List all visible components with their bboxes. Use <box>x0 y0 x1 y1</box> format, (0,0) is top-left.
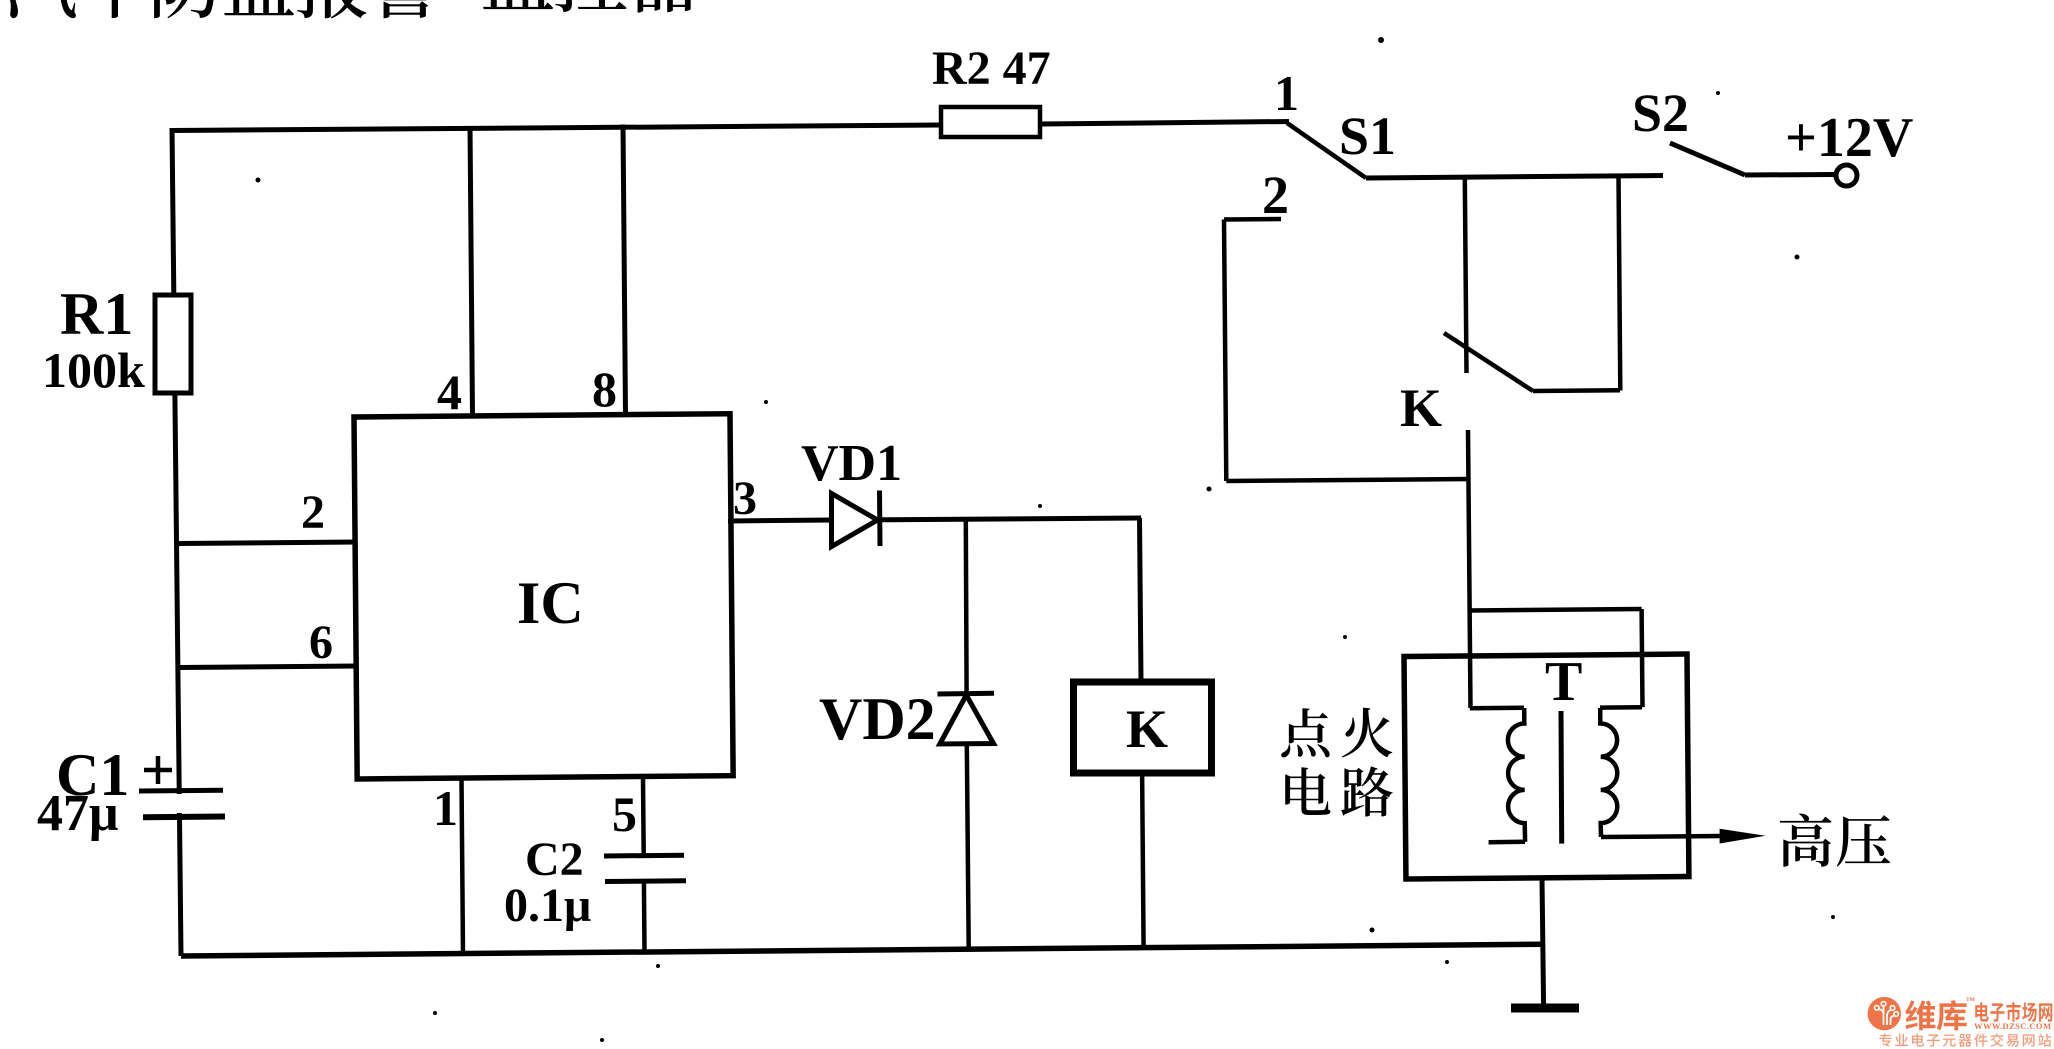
svg-text:2: 2 <box>1262 165 1289 225</box>
capacitor C2 top plate <box>604 853 684 859</box>
transformer secondary winding <box>1600 708 1617 837</box>
scan noise specks <box>256 37 1836 1042</box>
label 高压 <box>1780 814 1890 867</box>
relay coil K box <box>1074 682 1212 773</box>
svg-text:5: 5 <box>612 786 637 842</box>
svg-text:T: T <box>1545 651 1582 713</box>
capacitor C2 bottom plate <box>605 878 686 884</box>
wire IC pin5 lower <box>642 881 647 952</box>
label 点火电路 <box>1281 708 1393 817</box>
switch S1 blade <box>1287 123 1366 178</box>
arrow head 高压 output <box>1720 829 1766 844</box>
svg-text:VD2: VD2 <box>819 686 936 752</box>
wire top rail right of R2 <box>1040 122 1289 125</box>
wire IC pin4 vertical <box>470 126 473 415</box>
svg-text:R1: R1 <box>60 281 133 347</box>
capacitor C1 top plate <box>139 788 223 794</box>
svg-text:1: 1 <box>433 780 458 836</box>
wire S2 to terminal <box>1745 172 1834 178</box>
transformer primary winding <box>1508 708 1525 842</box>
wire relay contact upper vertical <box>1465 177 1467 373</box>
svg-text:IC: IC <box>517 570 584 636</box>
switch S2 blade <box>1670 143 1745 175</box>
wire secondary loop right vertical <box>1639 609 1644 707</box>
svg-text:100k: 100k <box>42 342 145 398</box>
wire zener branch vertical top <box>964 520 969 694</box>
ground symbol <box>1511 1004 1579 1013</box>
svg-text:0.1μ: 0.1μ <box>504 879 591 932</box>
wire IC pin5 upper <box>641 778 646 855</box>
diode VD1 triangle <box>832 494 878 547</box>
svg-text:WWW.DZSC.COM: WWW.DZSC.COM <box>1974 1021 2051 1031</box>
wire S1 throw-2 stub <box>1224 217 1281 222</box>
wire primary top stub <box>1470 706 1524 711</box>
wire relay contact bottom horizontal <box>1533 388 1620 393</box>
capacitor C1 plus sign <box>144 768 172 773</box>
wire IC pin2 <box>179 542 358 544</box>
wire IC pin8 vertical <box>623 125 626 415</box>
svg-text:S2: S2 <box>1632 83 1689 143</box>
wire secondary output to arrow <box>1601 836 1722 837</box>
relay contact K blade <box>1444 333 1533 391</box>
ignition circuit box <box>1404 654 1689 879</box>
svg-text:3: 3 <box>733 472 757 525</box>
wire secondary loop top <box>1469 609 1642 611</box>
wire IC pin1 vertical <box>462 780 464 955</box>
wire throw-2 bottom horizontal <box>1226 479 1470 481</box>
wire relay coil to ground rail <box>1142 773 1144 948</box>
watermark 维库 text <box>1905 1000 1967 1030</box>
zener VD2 triangle <box>940 695 994 744</box>
diode VD1 cathode bar <box>877 491 883 547</box>
svg-text:2: 2 <box>301 486 325 539</box>
svg-text:K: K <box>1126 699 1168 759</box>
svg-text:4: 4 <box>437 364 462 420</box>
wire IC pin3 to diode <box>728 520 833 521</box>
wire IC pin6 <box>180 666 358 668</box>
IC U1 box <box>354 414 733 779</box>
svg-text:K: K <box>1400 378 1442 438</box>
svg-text:R2 47: R2 47 <box>932 42 1051 95</box>
wire secondary top stub <box>1600 705 1642 710</box>
watermark slogan 专业电子元器件交易网站 <box>1879 1033 2051 1046</box>
watermark logo icon circle <box>1868 997 1901 1030</box>
wire throw-2 vertical <box>1224 220 1226 482</box>
svg-text:TM: TM <box>1966 997 1976 1003</box>
svg-text:S1: S1 <box>1339 106 1396 166</box>
svg-text:1: 1 <box>1274 65 1299 121</box>
wire diode to relay corner <box>880 518 1142 520</box>
wire relay coil drop <box>1140 518 1142 682</box>
wire primary bottom stub <box>1489 840 1525 845</box>
svg-text:VD1: VD1 <box>801 435 902 492</box>
wire bottom ground rail <box>181 944 1544 956</box>
resistor R1 <box>155 295 191 393</box>
resistor R2 <box>941 107 1040 137</box>
svg-text:47μ: 47μ <box>37 785 118 842</box>
zener VD2 cathode bar <box>938 691 995 697</box>
wire ignition box to ground <box>1542 879 1544 1007</box>
wire relay contact right vertical <box>1619 176 1621 390</box>
wire zener branch vertical bottom <box>967 744 969 949</box>
wire top rail left segment <box>172 125 941 131</box>
svg-text:+12V: +12V <box>1785 107 1913 169</box>
wire left vertical (R1/C1 branch) <box>172 128 181 956</box>
wire S1 common rail <box>1366 176 1663 179</box>
terminal circle +12V <box>1836 165 1857 186</box>
cropped page-title text row <box>4 0 700 18</box>
transformer core line <box>1559 711 1565 844</box>
svg-text:6: 6 <box>309 616 333 669</box>
watermark 电子市场网 text <box>1975 1002 2052 1022</box>
capacitor C1 bottom plate <box>143 814 225 821</box>
svg-text:8: 8 <box>592 361 617 417</box>
wire armature to ignition <box>1468 430 1471 708</box>
capacitor C1 gap mask <box>170 794 188 813</box>
